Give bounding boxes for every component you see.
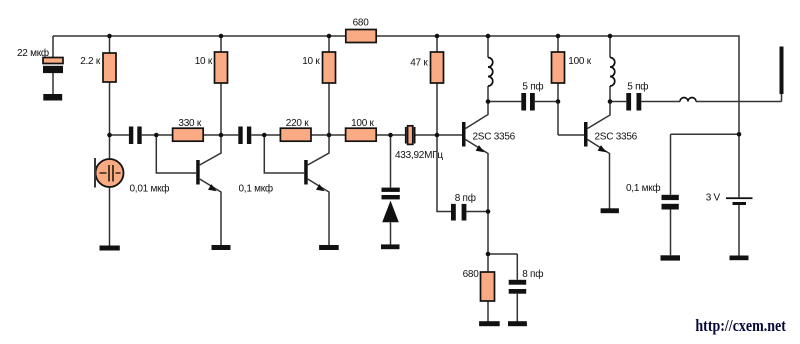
svg-text:0,1 мкф: 0,1 мкф (626, 182, 660, 194)
svg-text:100 к: 100 к (351, 118, 374, 129)
svg-text:220 к: 220 к (286, 118, 309, 129)
svg-text:47 к: 47 к (410, 58, 428, 69)
svg-text:10 к: 10 к (195, 56, 213, 67)
svg-text:5 пф: 5 пф (627, 81, 648, 93)
svg-text:0,01 мкф: 0,01 мкф (130, 182, 170, 194)
svg-text:0,1 мкф: 0,1 мкф (239, 182, 273, 194)
svg-text:330 к: 330 к (178, 118, 201, 129)
svg-text:10 к: 10 к (302, 56, 320, 67)
svg-text:100 к: 100 к (568, 56, 591, 67)
svg-text:http://cxem.net: http://cxem.net (695, 316, 786, 335)
svg-text:2SC 3356: 2SC 3356 (473, 132, 516, 143)
svg-text:2SC 3356: 2SC 3356 (595, 132, 638, 143)
svg-text:22 мкф: 22 мкф (17, 47, 49, 59)
svg-text:8 пф: 8 пф (455, 192, 476, 204)
svg-text:680: 680 (463, 269, 480, 280)
svg-text:680: 680 (353, 17, 370, 28)
svg-text:433,92МГц: 433,92МГц (395, 150, 443, 161)
svg-text:2.2 к: 2.2 к (80, 56, 101, 67)
svg-text:5 пф: 5 пф (522, 81, 543, 93)
svg-text:8 пф: 8 пф (522, 268, 543, 280)
svg-text:3 V: 3 V (706, 192, 721, 203)
